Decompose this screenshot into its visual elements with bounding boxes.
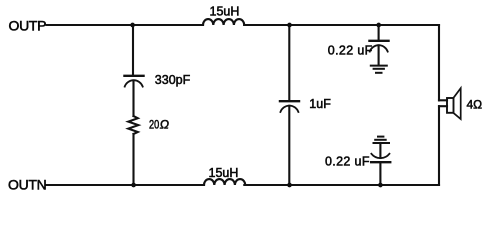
junction node: top rail / 0.22uF branch: [376, 23, 381, 28]
net label OUTP: [9, 18, 47, 34]
junction node: top rail / 330pF branch: [130, 23, 135, 28]
capacitor 330pF: [125, 76, 144, 116]
ground (bottom, inverted): [374, 137, 390, 143]
value label 15uH (bottom inductor): [209, 166, 239, 180]
junction node: bottom rail / 20ohm branch: [131, 183, 136, 188]
wire right vertical upper (to speaker + terminal): [438, 25, 440, 100]
wire bottom rail: 1uF node to inductor: [244, 184, 289, 186]
svg-text:4Ω: 4Ω: [467, 97, 483, 111]
junction node: bottom rail / 0.22uF branch: [378, 183, 383, 188]
wire speaker bottom stub: [439, 105, 447, 107]
wire top rail: OUTP to inductor: [47, 24, 204, 26]
svg-text:20: 20: [149, 118, 159, 132]
svg-text:15uH: 15uH: [209, 166, 239, 180]
value label 4 ohm (speaker): [467, 97, 483, 111]
wire bottom rail: right corner to bottom 0.22uF node: [380, 184, 439, 186]
wire middle branch: top node to 1uF: [288, 25, 290, 101]
wire left branch: resistor to bottom node: [132, 134, 134, 185]
svg-text:1uF: 1uF: [309, 97, 331, 111]
svg-text:15uH: 15uH: [210, 4, 240, 18]
wire bottom rail: inductor to 330pF/20ohm node: [134, 184, 205, 186]
inductor 15uH (top): [203, 19, 244, 25]
capacitor 1uF: [280, 101, 299, 185]
capacitor 0.22uF (top): [370, 41, 389, 66]
wire top rail: inductor to 1uF node: [244, 24, 289, 26]
inductor 15uH (bottom): [204, 179, 245, 185]
value label 1uF: [309, 97, 331, 111]
svg-text:0.22 uF: 0.22 uF: [325, 155, 370, 169]
svg-text:330pF: 330pF: [155, 73, 191, 87]
junction node: bottom rail / 1uF branch: [287, 183, 292, 188]
value label 15uH (top inductor): [210, 4, 240, 18]
wire speaker top stub: [439, 99, 447, 101]
svg-text:OUTN: OUTN: [8, 176, 46, 192]
value label 0.22 uF (bottom): [325, 155, 370, 169]
wire bottom rail: 0.22uF node to 1uF node: [290, 184, 381, 186]
junction node: top rail / 1uF branch: [287, 23, 292, 28]
value label 20 ohm: [149, 118, 169, 132]
wire top rail: 1uF node to 0.22uF node: [290, 24, 379, 26]
ground (top): [371, 66, 387, 73]
svg-text:OUTP: OUTP: [9, 18, 47, 34]
svg-text:0.22 uF: 0.22 uF: [328, 44, 373, 58]
svg-text:Ω: Ω: [160, 118, 169, 132]
value label 330pF: [155, 73, 191, 87]
wire left branch: top node to 330pF: [132, 25, 134, 75]
wire right vertical lower (speaker - terminal to bottom rail): [438, 106, 440, 185]
wire top 0.22uF branch: node to cap: [378, 25, 380, 41]
wire top rail: 0.22uF node to right corner: [379, 24, 439, 26]
speaker 4ohm: [447, 88, 461, 119]
net label OUTN: [8, 176, 46, 192]
resistor 20ohm: [128, 116, 138, 134]
capacitor 0.22uF (bottom): [371, 143, 390, 185]
value label 0.22 uF (top): [328, 44, 373, 58]
wire bottom rail: node to OUTN: [47, 184, 134, 186]
